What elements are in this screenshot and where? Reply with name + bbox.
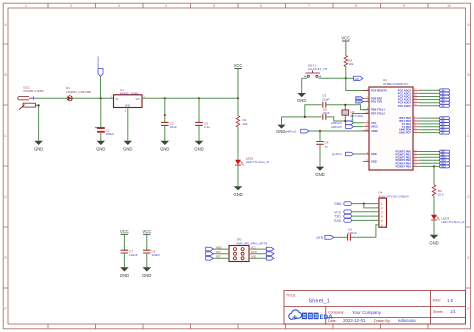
svg-text:EDA: EDA (320, 314, 334, 321)
ground GND (C3) (194, 141, 203, 152)
svg-text:LED-TH-3mm_R: LED-TH-3mm_R (246, 160, 270, 164)
svg-text:22pF: 22pF (323, 111, 330, 115)
wire xtal gnd rail (upper) (305, 105, 322, 117)
capacitor C4 (316, 141, 329, 149)
ground GND (DC1) (34, 105, 43, 151)
svg-text:1/1: 1/1 (450, 309, 456, 314)
svg-text:100nF: 100nF (348, 231, 357, 235)
svg-text:DTR: DTR (317, 236, 324, 240)
svg-text:10 k: 10 k (438, 193, 444, 197)
net port (GND pin 8) (332, 152, 363, 156)
wire LED2 to ground (433, 220, 435, 235)
resistor R1 (236, 116, 248, 128)
svg-text:CRY-49S: CRY-49S (350, 114, 363, 118)
junction (C2 tap) (164, 97, 166, 99)
diode D1 (66, 86, 91, 101)
capacitor C1 (95, 127, 114, 137)
svg-text:GND: GND (34, 146, 43, 151)
connector DC1 (18, 86, 44, 110)
svg-text:GND: GND (120, 273, 129, 278)
net labels D2-D7 (440, 117, 450, 134)
svg-text:PC6 RESET#: PC6 RESET# (371, 89, 387, 93)
junction (DC1 pin2) (38, 104, 40, 106)
wire VCC junction to R1 (237, 98, 239, 115)
svg-text:Sheet:: Sheet: (433, 310, 443, 314)
wire junction to R3 (433, 166, 435, 184)
svg-text:dcPower: dcPower (96, 56, 100, 67)
svg-text:100nF: 100nF (129, 253, 138, 257)
svg-text:GND: GND (96, 146, 105, 151)
ground GND (C2) (160, 141, 169, 152)
net flag VCC (U4 pin3) (334, 210, 351, 215)
svg-text:PB7 XTAL2: PB7 XTAL2 (371, 112, 385, 116)
svg-text:PC5 ADC5: PC5 ADC5 (398, 104, 412, 108)
push button KEY1 (302, 63, 346, 78)
wire junction to pin2 (364, 204, 379, 208)
junction (gnd to pin2) (363, 203, 365, 205)
svg-text:GND: GND (125, 105, 131, 108)
capacitor C6 (323, 108, 330, 120)
svg-text:8: 8 (355, 4, 357, 8)
junction (D13 / LED2 tap) (433, 165, 435, 167)
mcu U2 (369, 78, 413, 170)
svg-text:GND: GND (123, 146, 132, 151)
wire U1 pin2 to ground (127, 108, 129, 141)
svg-text:AIN1 PD7: AIN1 PD7 (399, 131, 412, 135)
svg-text:MOSI: MOSI (251, 252, 257, 254)
svg-text:1.0: 1.0 (447, 298, 454, 303)
junction (xtal gnd rail) (304, 116, 306, 118)
svg-text:D13: D13 (442, 166, 447, 168)
mcu right pin stubs (413, 90, 419, 166)
svg-text:PCINT5 PB5: PCINT5 PB5 (395, 164, 411, 168)
wire rail down to C2 (164, 98, 166, 122)
svg-text:AREF: AREF (371, 129, 378, 133)
svg-text:2022-12-01: 2022-12-01 (343, 318, 366, 323)
wire 5V rail (142, 97, 238, 99)
svg-text:GND: GND (371, 160, 377, 164)
net flag TXD (U4 pin4) (334, 214, 351, 219)
wire C9 to DTR flag (334, 236, 347, 238)
net port MOSI (266, 252, 274, 256)
net port VCC (JP2) (266, 247, 274, 251)
wire TXD flag to pin4 (352, 215, 379, 217)
svg-text:3: 3 (118, 4, 120, 8)
title block (284, 291, 466, 325)
capacitor C5 (322, 94, 329, 108)
wire KEY1 to ground (301, 78, 303, 93)
capacitor C3 (195, 121, 210, 129)
svg-text:6: 6 (260, 4, 262, 8)
svg-text:VCC: VCC (234, 63, 243, 68)
svg-text:LED-TH-3mm_R: LED-TH-3mm_R (442, 220, 466, 224)
wire VCC flag to pin3 (352, 211, 379, 213)
svg-text:rstP: rstP (354, 77, 359, 81)
net port TXD (pin 3) (356, 100, 363, 104)
net port MISO (206, 247, 214, 251)
power flag VCC (rail) (234, 63, 243, 98)
header JP2 (229, 238, 267, 262)
LED LED2 (431, 215, 465, 224)
svg-text:1N4004_C001490: 1N4004_C001490 (66, 90, 91, 94)
wires JP2 left pins (213, 249, 229, 258)
ground GND (C1) (96, 141, 105, 152)
net port (VCC pin) (331, 121, 363, 125)
net port SCK (206, 252, 214, 256)
svg-text:AVCC: AVCC (371, 125, 378, 129)
svg-text:VCC: VCC (142, 229, 151, 234)
wire reset node to MCU pin 1 (346, 78, 369, 90)
wires mcu right pins to net flags (419, 90, 440, 166)
net labels A0-A5 (440, 89, 450, 107)
svg-text:0.1u: 0.1u (204, 125, 210, 129)
svg-text:5: 5 (213, 4, 215, 8)
svg-text:2: 2 (70, 4, 72, 8)
wire xtal gnd rail (lower) (282, 116, 322, 118)
ground GND (C4) (315, 167, 324, 177)
wire junction down to C1 (100, 98, 102, 127)
junction (C4 tap) (319, 130, 321, 132)
mcu right pin numbers (414, 89, 417, 167)
net port DTR (317, 235, 334, 239)
svg-text:10uF: 10uF (170, 125, 177, 129)
svg-text:TITLE:: TITLE: (286, 294, 296, 298)
svg-text:GND: GND (142, 273, 151, 278)
wire C6 to XTAL2 (327, 114, 370, 122)
svg-text:9: 9 (403, 4, 405, 8)
wire C8 to ground (146, 253, 148, 267)
wire down to C4 (319, 131, 321, 141)
svg-text:wifiPort5: wifiPort5 (331, 125, 342, 129)
wire C3 to ground (198, 126, 200, 141)
svg-text:100uF: 100uF (105, 132, 114, 136)
resistor R3 (432, 185, 444, 197)
svg-text:7: 7 (308, 4, 310, 8)
svg-text:10k: 10k (243, 122, 248, 126)
svg-text:RST: RST (216, 257, 221, 259)
svg-text:GND: GND (429, 240, 438, 245)
net labels D8-D13 (440, 150, 450, 168)
svg-text:VCC: VCC (341, 35, 350, 40)
wire GND flag to pin1 (352, 203, 379, 205)
svg-text:TXD: TXD (356, 101, 361, 104)
wire D1 to U1 (72, 97, 113, 99)
svg-text:D11: D11 (442, 160, 447, 162)
power flag VCC (C7) (120, 229, 129, 250)
wire C7 to ground (123, 253, 125, 267)
svg-text:wifiPort1: wifiPort1 (285, 130, 297, 134)
svg-text:RXD: RXD (334, 219, 341, 223)
wire DC1 to D1 (35, 97, 67, 99)
ground GND (C7) (120, 267, 129, 278)
capacitor C2 (161, 114, 177, 129)
svg-text:10k: 10k (348, 62, 353, 66)
svg-text:GND: GND (371, 152, 377, 156)
junction (reset node) (345, 77, 347, 79)
net port wifiPort1 (aref) (285, 129, 309, 134)
capacitor C9 (348, 227, 357, 240)
junction (VIN node) (100, 97, 102, 99)
svg-text:ATMEGA328P-PU: ATMEGA328P-PU (383, 82, 408, 86)
ground GND (C8) (142, 267, 151, 278)
svg-text:GND: GND (334, 202, 342, 206)
svg-text:Your Company: Your Company (352, 310, 382, 315)
mcu right pin names (395, 88, 411, 168)
net port wifiPort2 (reset) (354, 76, 363, 81)
svg-text:K4-12x12_TH: K4-12x12_TH (308, 67, 327, 71)
net flag RXD (U4 pin5) (334, 219, 351, 224)
capacitor C8 (143, 249, 160, 257)
svg-text:GND: GND (315, 172, 324, 177)
capacitor C7 (121, 249, 138, 257)
svg-text:PD1 TXD: PD1 TXD (371, 100, 382, 104)
svg-text:22pF: 22pF (322, 97, 329, 101)
svg-text:GND: GND (233, 192, 242, 197)
wire pin6 to C9 (351, 225, 379, 238)
wires JP2 right pins (249, 249, 266, 258)
svg-text:Drawn By:: Drawn By: (374, 319, 391, 323)
net port RXD (pin 2) (356, 97, 363, 101)
ground GND (KEY1) (297, 93, 306, 103)
wire aref node (309, 130, 369, 132)
wire C1 to ground (100, 133, 102, 141)
wire C5 to XTAL1 (327, 105, 370, 110)
regulator U1 (110, 88, 145, 113)
wire C4 to ground (319, 145, 321, 167)
net port GND (JP2) (266, 257, 274, 261)
wire reset node to net port (346, 77, 354, 79)
svg-text:GND: GND (160, 146, 169, 151)
svg-text:D12: D12 (442, 163, 447, 165)
svg-text:4: 4 (165, 4, 167, 8)
svg-text:GND: GND (194, 146, 203, 151)
ground GND (U1) (123, 141, 132, 152)
svg-text:GND: GND (251, 257, 256, 259)
junction (C3 tap) (198, 97, 200, 99)
mcu left pin names (371, 89, 387, 164)
svg-text:VI: VI (116, 97, 119, 101)
mcu left pin stubs (363, 91, 369, 162)
wire gnd rail drop (281, 117, 283, 125)
svg-text:D10: D10 (442, 157, 447, 159)
junction (crystal bottom) (344, 120, 346, 122)
crystal U3 (342, 105, 363, 121)
svg-text:Sheet_1: Sheet_1 (309, 299, 330, 305)
svg-text:DC005-2.0MM: DC005-2.0MM (24, 89, 45, 93)
svg-text:100nF: 100nF (151, 253, 160, 257)
wire rail down to C3 (198, 98, 200, 122)
svg-text:gndPort: gndPort (332, 152, 342, 156)
svg-text:10: 10 (447, 4, 451, 8)
svg-text:VCC: VCC (251, 247, 256, 249)
junction (rail / LED branch) (237, 97, 239, 99)
svg-text:F: F (5, 307, 7, 311)
wire R3 to LED2 (433, 196, 435, 214)
logo (289, 310, 333, 321)
LED LED1 (235, 157, 269, 166)
ground GND (LED1) (233, 186, 242, 197)
svg-text:1: 1 (25, 4, 27, 8)
svg-text:edisousa: edisousa (398, 318, 416, 323)
ground GND (LED2) (429, 235, 438, 246)
connector U4 (379, 191, 409, 228)
svg-text:GND: GND (297, 98, 306, 103)
net port RST (206, 257, 214, 261)
wire RXD flag to pin5 (352, 219, 379, 221)
net flag GND (U4 pin1) (334, 202, 351, 207)
ground GND (xtal caps) (276, 125, 285, 135)
resistor R2 (344, 56, 354, 67)
junction (crystal top) (344, 104, 346, 106)
svg-text:MISO: MISO (216, 247, 222, 249)
wire R2 to reset node (345, 67, 347, 79)
svg-text:F: F (467, 307, 469, 311)
power flag VCC (C8) (142, 229, 151, 250)
wire R1 to LED1 (237, 127, 239, 160)
svg-text:1u: 1u (325, 144, 329, 148)
svg-text:REV:: REV: (433, 299, 441, 303)
net port P1 (vertical, top-left) (96, 56, 103, 98)
svg-text:VCC: VCC (120, 229, 129, 234)
svg-text:SCK: SCK (216, 252, 221, 254)
power flag VCC (R2) (341, 35, 350, 55)
net port (AVCC pin) (331, 125, 363, 129)
svg-text:PB6 XTAL1: PB6 XTAL1 (371, 108, 385, 112)
wire C2 to ground (164, 126, 166, 141)
wire LED1 to ground (237, 165, 239, 186)
svg-text:VCC: VCC (371, 121, 377, 125)
mcu left pin numbers (366, 89, 369, 162)
svg-text:AVR_SPI_PRG_6PTH: AVR_SPI_PRG_6PTH (236, 241, 267, 245)
